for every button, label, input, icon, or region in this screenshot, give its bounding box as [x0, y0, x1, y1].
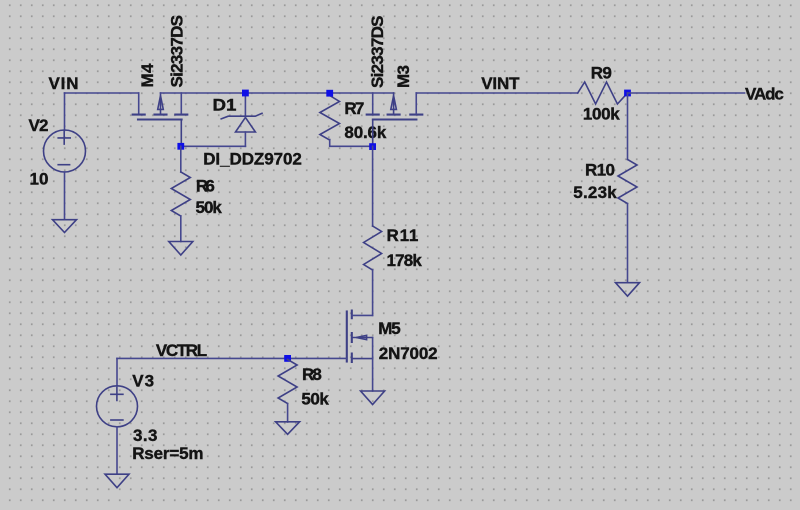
svg-text:M4: M4: [138, 63, 157, 88]
junction D1 cathode on rail: [242, 90, 249, 97]
wire VCTRL (V3 to M5 gate): [117, 357, 347, 359]
svg-text:100k: 100k: [583, 104, 620, 123]
svg-text:VINT: VINT: [481, 74, 520, 93]
junction M4 gate node: [177, 143, 184, 150]
svg-text:R6: R6: [196, 177, 215, 196]
svg-text:M5: M5: [378, 319, 401, 338]
junction R9 right / R10 top: [624, 90, 631, 97]
ground (V3): [105, 474, 129, 488]
voltage source V2: [44, 130, 86, 172]
svg-text:Si2337DS: Si2337DS: [167, 15, 186, 88]
svg-text:R7: R7: [344, 99, 364, 118]
resistor R10: [618, 93, 637, 283]
svg-text:D1: D1: [213, 96, 237, 115]
junction R7 top on rail: [326, 90, 333, 97]
ground (R8): [276, 422, 300, 435]
svg-text:Si2337DS: Si2337DS: [368, 16, 387, 89]
svg-text:M3: M3: [394, 65, 413, 88]
wire V2 to ground: [64, 172, 66, 220]
svg-text:178k: 178k: [387, 251, 423, 270]
resistor R8: [278, 360, 297, 423]
wire VIN vertical (V2 plus to rail): [64, 93, 66, 131]
wire D1 anode to M4 gate node: [181, 145, 246, 147]
svg-text:VCTRL: VCTRL: [156, 341, 207, 360]
diode D1 (zener): [221, 93, 262, 146]
svg-text:R8: R8: [302, 365, 322, 384]
svg-text:V3: V3: [132, 372, 154, 391]
svg-text:V2: V2: [29, 116, 49, 135]
svg-text:DI_DDZ9702: DI_DDZ9702: [203, 150, 302, 169]
wire V3 to ground: [116, 427, 118, 474]
transistor M4 (PMOS Si2337DS): [133, 93, 188, 146]
svg-text:2N7002: 2N7002: [379, 344, 438, 363]
svg-text:50k: 50k: [196, 198, 223, 217]
wire VINT rail (M3 drain to R9): [416, 92, 577, 94]
resistor R7: [320, 96, 371, 147]
ground (V2): [53, 220, 77, 233]
svg-text:5.23k: 5.23k: [573, 183, 617, 202]
ground (R6): [169, 242, 193, 256]
junction M3 gate / R7 / R11 node: [369, 143, 376, 150]
svg-text:R10: R10: [585, 161, 615, 180]
svg-text:VAdc: VAdc: [745, 85, 784, 104]
resistor R6: [171, 146, 190, 241]
resistor R11: [364, 146, 382, 315]
voltage source V3: [97, 386, 138, 427]
wire V3 top to VCTRL: [116, 358, 118, 386]
transistor M5 (NMOS 2N7002): [347, 311, 373, 392]
svg-text:Rser=5m: Rser=5m: [132, 444, 203, 463]
transistor M3 (PMOS Si2337DS, mirrored): [367, 93, 423, 146]
wire source rail (M4 to M3): [161, 92, 394, 94]
ground (M5): [361, 391, 385, 405]
svg-text:VIN: VIN: [49, 74, 79, 93]
ground (R10): [616, 283, 640, 297]
wire rail node to VAdc: [628, 92, 745, 94]
svg-text:10: 10: [30, 170, 49, 189]
svg-text:3.3: 3.3: [133, 426, 158, 445]
resistor R9: [578, 82, 628, 104]
svg-text:R11: R11: [387, 226, 419, 245]
wire VIN rail to M4 drain: [65, 92, 139, 94]
junction R8 top on VCTRL: [284, 355, 291, 362]
svg-text:50k: 50k: [301, 390, 329, 409]
svg-text:R9: R9: [591, 63, 612, 82]
svg-text:80.6k: 80.6k: [344, 123, 386, 142]
